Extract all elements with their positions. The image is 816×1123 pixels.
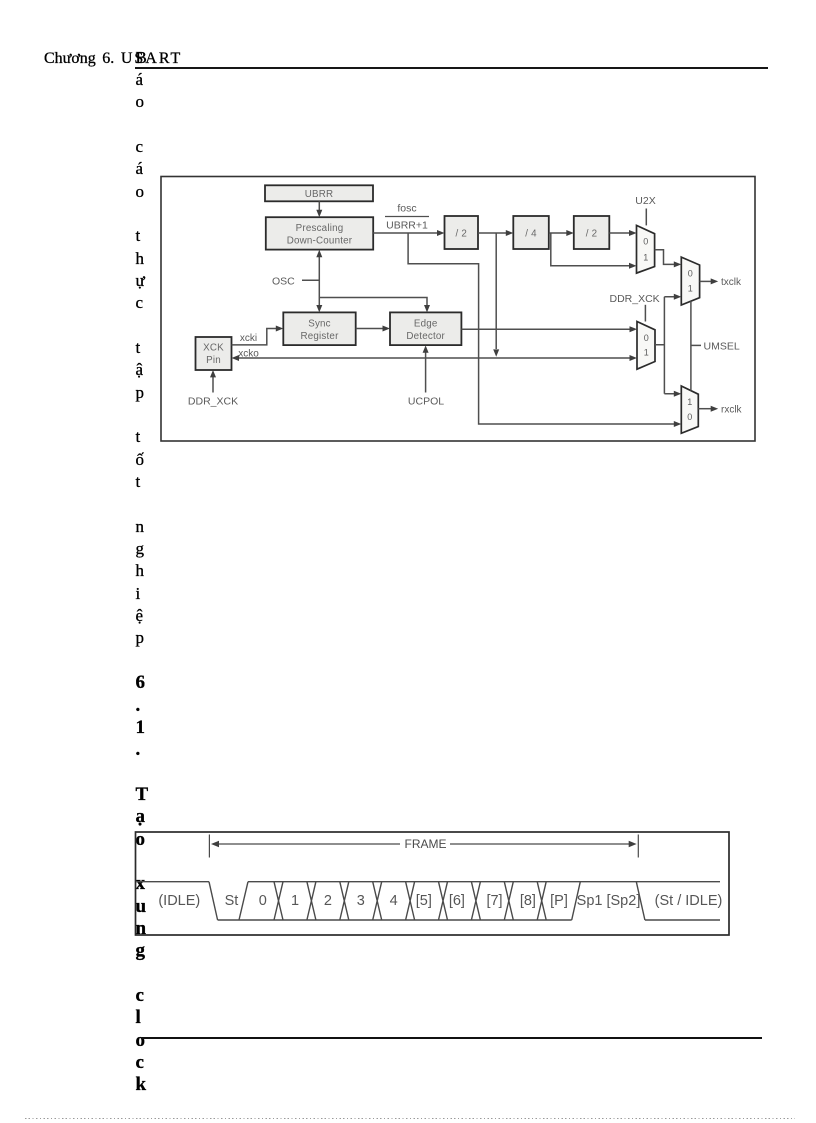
svg-text:1: 1 <box>643 253 648 263</box>
wire /4 to /2 <box>549 232 567 234</box>
arrowhead into Sync Register left xcki <box>276 326 284 332</box>
arrowhead into rxclk mux pin1 <box>674 391 682 397</box>
waveform start-to-bit0 rising edge <box>239 882 248 920</box>
svg-text:[6]: [6] <box>449 893 465 909</box>
arrowhead into U2X mux pin0 <box>629 230 637 236</box>
wire UBRR to Prescaling <box>318 201 320 211</box>
svg-text:0: 0 <box>643 237 648 247</box>
svg-text:UCPOL: UCPOL <box>408 396 444 408</box>
arrowhead into rxclk mux pin0 <box>674 421 682 427</box>
svg-text:/ 4: / 4 <box>525 229 537 240</box>
waveform bit crossing X 2|3 <box>340 882 349 920</box>
arrowhead left into XCK Pin xcko <box>232 355 240 361</box>
svg-text:Sync: Sync <box>308 319 331 330</box>
wire Prescaling to /2 <box>373 232 438 234</box>
FRAME arrow shaft right <box>450 843 632 845</box>
wire UCPOL to Edge Detector <box>425 353 427 393</box>
wire U2X mux output to txclk mux pin0 <box>655 250 675 265</box>
wire txclk output <box>700 280 712 282</box>
wire OSC branch to Edge Detector <box>319 298 427 306</box>
waveform bit crossing X 3|4 <box>373 882 382 920</box>
block XCK Pin <box>196 337 232 370</box>
arrowhead into Edge Detector left <box>383 326 391 332</box>
wire xcko horizontal <box>239 357 630 359</box>
block UBRR <box>265 185 373 201</box>
wire DDR_XCK mux output trunk <box>655 297 675 394</box>
waveform bit crossing X 1|2 <box>307 882 316 920</box>
svg-text:UBRR+1: UBRR+1 <box>386 220 428 232</box>
waveform bit crossing X 7|8 <box>504 882 513 920</box>
waveform bit crossing X 8|P <box>537 882 546 920</box>
svg-text:xcki: xcki <box>240 333 257 344</box>
waveform idle-to-start falling edge <box>209 882 218 920</box>
svg-text:Detector: Detector <box>406 331 445 342</box>
arrowhead up into Prescaling bottom <box>316 250 322 257</box>
arrowhead into /4 <box>506 230 514 236</box>
svg-text:(St / IDLE): (St / IDLE) <box>655 893 723 909</box>
svg-text:UMSEL: UMSEL <box>704 341 740 353</box>
svg-text:UBRR: UBRR <box>305 189 334 200</box>
block divide-by-4 <box>513 216 549 249</box>
fraction bar fosc/(UBRR+1) <box>385 216 429 218</box>
arrowhead UBRR to Prescaling <box>316 210 322 217</box>
wire /2 to U2X mux pin0 <box>609 232 630 234</box>
frame figure border <box>136 832 730 935</box>
vertical char column <box>136 47 147 650</box>
waveform bit crossing X 6|7 <box>471 882 480 920</box>
block divide-by-2 first <box>445 216 479 249</box>
waveform bit crossing X 5|6 <box>439 882 448 920</box>
arrowhead up into XCK Pin bottom <box>210 370 216 377</box>
svg-text:fosc: fosc <box>397 203 416 215</box>
wire U2X select <box>645 209 647 226</box>
diagram outer frame <box>161 177 755 442</box>
wire DDR_XCK select <box>644 305 646 322</box>
FRAME arrow left tick <box>208 835 210 858</box>
mux UMSEL rxclk <box>681 386 698 433</box>
svg-text:rxclk: rxclk <box>721 404 743 415</box>
svg-text:Edge: Edge <box>414 319 438 330</box>
wire junction /4 input branch to U2X mux pin1 <box>551 233 630 266</box>
svg-text:txclk: txclk <box>721 277 742 288</box>
arrowhead into U2X mux pin1 <box>629 263 637 269</box>
svg-text:[5]: [5] <box>416 893 432 909</box>
svg-text:Down-Counter: Down-Counter <box>287 236 353 247</box>
svg-text:1: 1 <box>291 893 299 909</box>
wire UMSEL select joining both muxes <box>690 301 692 390</box>
FRAME arrow right tick <box>637 835 639 858</box>
arrowhead into DDR_XCK mux pin1 <box>630 355 638 361</box>
arrowhead into /2 second <box>566 230 574 236</box>
wire Edge Detector to DDR_XCK mux pin0 <box>461 328 630 330</box>
wire Sync Register to Edge Detector <box>356 328 384 330</box>
svg-text:1: 1 <box>687 397 692 407</box>
svg-text:XCK: XCK <box>203 343 224 354</box>
svg-text:DDR_XCK: DDR_XCK <box>610 293 660 305</box>
svg-text:OSC: OSC <box>272 276 295 288</box>
svg-text:0: 0 <box>259 893 267 909</box>
wire prescaler tap to rxclk mux pin0 <box>408 233 674 424</box>
arrowhead into DDR_XCK mux pin0 <box>630 326 638 332</box>
svg-text:1: 1 <box>688 284 693 294</box>
arrowhead down into Sync Register top <box>316 305 322 312</box>
waveform bottom rail start through data <box>218 919 572 921</box>
waveform parity-to-stop rising edge <box>572 882 581 920</box>
svg-text:FRAME: FRAME <box>405 837 447 851</box>
waveform last bottom rail <box>645 919 720 921</box>
svg-text:4: 4 <box>390 893 398 909</box>
svg-text:0: 0 <box>688 268 693 278</box>
FRAME arrow shaft left <box>216 843 400 845</box>
svg-text:[7]: [7] <box>486 893 502 909</box>
arrowhead up into Edge Detector bottom <box>423 345 429 352</box>
waveform bit crossing X 4|5 <box>406 882 415 920</box>
block Sync Register <box>283 312 355 345</box>
wire /2 to /4 <box>478 232 507 234</box>
arrowhead into /2 <box>437 230 445 236</box>
mux UMSEL txclk <box>681 257 699 305</box>
waveform bit crossing X 0|1 <box>274 882 283 920</box>
arrowhead into txclk mux pin1 <box>674 294 682 300</box>
svg-text:(IDLE): (IDLE) <box>158 893 200 909</box>
waveform top rail data through stop and idle <box>248 881 720 883</box>
svg-text:[P]: [P] <box>550 893 568 909</box>
block Edge Detector <box>390 312 461 345</box>
wire junction /2 output down to xcko line <box>495 233 497 349</box>
wire DDR_XCK to XCK Pin <box>212 377 214 393</box>
svg-text:/ 2: / 2 <box>456 229 468 240</box>
svg-text:[8]: [8] <box>520 893 536 909</box>
arrowhead rxclk output <box>711 406 719 412</box>
arrowhead into txclk mux pin0 <box>674 261 682 267</box>
arrowhead down onto xcko line <box>493 349 499 356</box>
mux DDR_XCK <box>637 322 655 370</box>
FRAME arrowhead left <box>211 841 219 847</box>
wire OSC dash <box>302 279 319 281</box>
svg-text:/ 2: / 2 <box>586 229 598 240</box>
wire UMSEL dash <box>691 344 701 346</box>
arrowhead down into Edge Detector top <box>424 305 430 312</box>
waveform stop-to-start falling edge <box>636 882 645 920</box>
arrowhead txclk output <box>711 278 719 284</box>
svg-text:2: 2 <box>324 893 332 909</box>
header text <box>44 51 182 67</box>
bottom dotted rule <box>25 1118 795 1119</box>
svg-text:Prescaling: Prescaling <box>296 223 344 234</box>
svg-text:0: 0 <box>644 333 649 343</box>
svg-text:St: St <box>225 893 239 909</box>
wire OSC vertical Prescaling to Sync Register <box>318 257 320 306</box>
header rule <box>135 67 768 69</box>
svg-text:1: 1 <box>644 347 649 357</box>
bottom solid rule <box>142 1037 762 1039</box>
block divide-by-2 second <box>574 216 610 249</box>
svg-text:3: 3 <box>357 893 365 909</box>
waveform idle top rail <box>136 881 209 883</box>
wire xcki from XCK Pin to Sync Register <box>232 329 277 345</box>
svg-text:Register: Register <box>300 331 339 342</box>
block Prescaling Down-Counter <box>266 217 373 249</box>
FRAME arrowhead right <box>629 841 637 847</box>
mux U2X <box>637 225 655 273</box>
svg-text:DDR_XCK: DDR_XCK <box>188 396 238 408</box>
svg-text:Pin: Pin <box>206 355 221 366</box>
svg-text:Sp1 [Sp2]: Sp1 [Sp2] <box>577 893 641 909</box>
svg-text:U2X: U2X <box>635 195 655 207</box>
wire rxclk output <box>698 408 711 410</box>
svg-text:0: 0 <box>687 412 692 422</box>
